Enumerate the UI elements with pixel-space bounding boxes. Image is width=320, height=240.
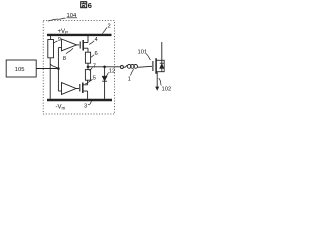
svg-text:6: 6 — [95, 51, 98, 57]
svg-text:4: 4 — [95, 37, 99, 43]
svg-text:1: 1 — [128, 77, 131, 83]
svg-text:7: 7 — [93, 64, 96, 70]
resistor 6 — [85, 52, 90, 63]
svg-text:+VP: +VP — [58, 29, 69, 35]
svg-text:9: 9 — [58, 37, 61, 43]
output terminal (open circle) — [120, 66, 123, 69]
node (diode junction) — [103, 66, 106, 69]
wire: resistor 6 to output node — [87, 63, 89, 67]
-Vm rail (node 3) — [47, 99, 112, 101]
svg-text:8: 8 — [63, 56, 66, 62]
wire: output line to terminal — [88, 66, 121, 68]
body diode of Q101 — [162, 60, 164, 71]
transistor 4 (upper MOSFET) — [79, 42, 81, 49]
terminal arrow 102 — [156, 87, 159, 91]
diode 12 (clamp to -Vm) — [104, 67, 106, 76]
svg-text:12: 12 — [109, 68, 115, 74]
node A (8) — [57, 67, 60, 70]
svg-text:6: 6 — [88, 1, 92, 10]
transistor Q101 (power MOSFET) — [152, 61, 154, 71]
svg-text:2: 2 — [108, 24, 111, 30]
svg-text:101: 101 — [138, 50, 148, 56]
resistor 9 — [50, 36, 52, 40]
op-amp upper buffer — [58, 47, 61, 49]
wire: resistor 7 to drain of 5 — [87, 80, 89, 85]
wire: drain of Q101 up — [161, 42, 163, 63]
inductor 1 (gate lead) — [123, 65, 127, 67]
wire: source of 5 to -Vm — [87, 91, 89, 99]
svg-text:102: 102 — [162, 87, 172, 93]
dashed box 104 — [43, 21, 114, 115]
svg-text:105: 105 — [15, 67, 25, 73]
svg-text:3: 3 — [84, 104, 87, 110]
+Vp rail (node 2) — [47, 34, 112, 36]
node (output junction at 88,66.8) — [87, 66, 90, 69]
transistor 5 (lower MOSFET) — [79, 84, 81, 92]
svg-text:5: 5 — [93, 76, 96, 82]
wire from 105 to node 8 — [36, 68, 58, 70]
wire: resistor 9 bottom down to -Vm rail — [49, 58, 51, 99]
wire: input column between amp inputs — [57, 48, 59, 91]
figure title 図6 — [81, 2, 87, 8]
wire: divider tap to node 8 — [50, 64, 58, 68]
block 105 — [6, 60, 36, 77]
op-amp lower buffer — [58, 90, 61, 92]
svg-text:-Vm: -Vm — [56, 105, 66, 111]
wire: source of Q101 down to terminal 102 — [156, 72, 158, 88]
wire: source of 4 to resistor 6 — [87, 48, 89, 52]
resistor 7 — [87, 67, 89, 70]
wire: drain of 4 to +Vp — [87, 36, 89, 43]
